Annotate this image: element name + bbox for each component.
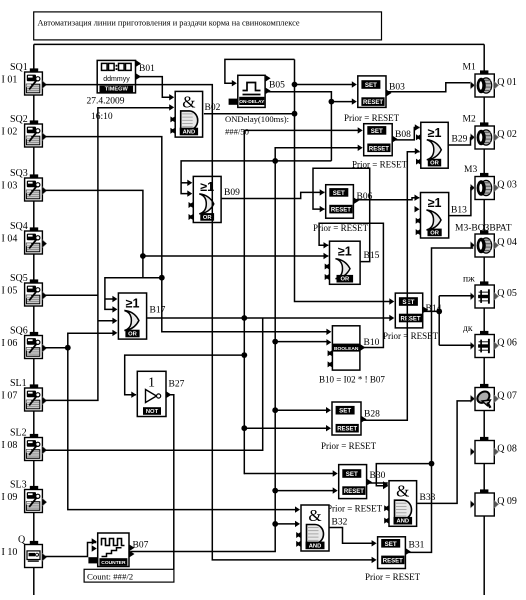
wire x244 trunk B08.SET — [244, 130, 358, 474]
wire SQ2 branch to B17.in1/in2 — [105, 278, 162, 310]
wire SL2 I08 up to B17-out wire — [44, 318, 263, 450]
AND gate B33 — [383, 481, 417, 527]
svg-text:I 08: I 08 — [2, 440, 18, 451]
junction x244 B28 — [241, 425, 247, 431]
wire B02.out to trunk — [204, 113, 295, 115]
junction B02 net B02out — [292, 111, 298, 117]
junction x244 y318 — [241, 315, 247, 321]
up/down counter B07 — [88, 533, 134, 567]
RS flip-flop B06 — [320, 185, 359, 219]
svg-text:RESET: RESET — [363, 100, 383, 106]
svg-text:BOOLEAN: BOOLEAN — [334, 346, 359, 352]
input SQ2 (I 02) — [25, 120, 47, 147]
wire branch y161 right — [275, 160, 331, 162]
wire SQ6 stub — [44, 347, 68, 349]
svg-text:SQ3: SQ3 — [10, 168, 28, 179]
wire branch to B17.in1 — [105, 298, 114, 300]
svg-text:B31: B31 — [409, 541, 425, 551]
junction x244 B27 — [241, 352, 247, 358]
svg-text:I 07: I 07 — [2, 391, 18, 402]
svg-text:I 06: I 06 — [2, 338, 18, 349]
wire to Q06 — [439, 344, 473, 346]
wire B03.out to Q01 — [387, 83, 471, 92]
wire B06.out to B13.in1 — [354, 198, 419, 200]
RS flip-flop B30 — [333, 465, 372, 499]
AND gate B32 — [295, 505, 329, 551]
junction B05 net — [329, 99, 335, 105]
svg-text:RESET: RESET — [331, 208, 351, 214]
svg-text:OR: OR — [340, 277, 350, 283]
wire B17.out to B14.RESET — [147, 317, 390, 319]
wire B13.out to Q03 — [449, 188, 473, 216]
RS flip-flop B03 — [352, 76, 392, 108]
wire B10.out to B15.in1 — [319, 223, 383, 347]
wire Q I10 to B07.in1 — [44, 543, 96, 557]
input Q (I 10) — [25, 541, 47, 568]
junction SQ2 branch — [159, 275, 165, 281]
input SL3 (I 09) — [25, 486, 47, 513]
svg-text:B09: B09 — [224, 188, 240, 198]
svg-text:I 09: I 09 — [2, 492, 18, 503]
input SQ4 (I 04) — [25, 227, 47, 254]
input SQ5 (I 05) — [25, 279, 47, 306]
svg-text:B07: B07 — [133, 541, 149, 551]
svg-text:&: & — [182, 92, 195, 111]
svg-text:RESET: RESET — [369, 146, 389, 152]
svg-text:I 05: I 05 — [2, 286, 18, 297]
svg-text:≥1: ≥1 — [126, 297, 140, 311]
RS flip-flop B08 — [358, 124, 398, 156]
svg-text:16:10: 16:10 — [91, 112, 113, 122]
svg-text:AND: AND — [183, 130, 196, 136]
junction B07 net B30 — [272, 488, 278, 494]
label Count: ###/2 (boxed) — [84, 569, 174, 582]
svg-text:TIMEGW: TIMEGW — [105, 87, 129, 93]
wire B09.out to B06.SET — [222, 192, 325, 198]
svg-text:М3-ВОЗВРАТ: М3-ВОЗВРАТ — [455, 224, 512, 234]
OR gate B17 — [112, 293, 146, 339]
svg-text:B17: B17 — [150, 306, 166, 316]
svg-text:Prior = RESET: Prior = RESET — [383, 331, 439, 341]
svg-text:M3: M3 — [464, 165, 477, 175]
wire B32.out to B31.SET — [330, 528, 373, 544]
timer clock B01 — [97, 60, 141, 93]
svg-text:Q 08: Q 08 — [497, 444, 517, 455]
wire branch to B33 via x376 — [376, 464, 431, 486]
junction B07 net y161 — [272, 158, 278, 164]
RS flip-flop B14 — [389, 293, 428, 328]
wire branch to B28.SET — [275, 409, 327, 411]
svg-text:I 03: I 03 — [2, 181, 18, 192]
svg-text:27.4.2009: 27.4.2009 — [87, 97, 125, 107]
svg-text:M1: M1 — [463, 63, 476, 73]
svg-text:OR: OR — [128, 332, 138, 338]
svg-text:Автоматизация линии приготов: Автоматизация линии приготовления и разд… — [38, 19, 300, 28]
svg-text:Q 07: Q 07 — [497, 391, 517, 402]
svg-text:SL1: SL1 — [10, 378, 27, 389]
svg-text:B13: B13 — [451, 206, 467, 216]
svg-text:SET: SET — [339, 408, 351, 415]
input SQ6 (I 06) — [25, 332, 47, 359]
svg-text:Q 05: Q 05 — [497, 288, 517, 299]
junction SQ3/y256 — [140, 253, 146, 259]
svg-text:Prior = RESET: Prior = RESET — [313, 223, 369, 233]
wire branch to B28.RESET — [244, 427, 326, 429]
OR gate B13 — [415, 193, 449, 239]
svg-text:SL2: SL2 — [10, 428, 27, 439]
svg-text:RESET: RESET — [383, 558, 403, 564]
wire B29.out to Q02 — [449, 137, 474, 145]
wire B15.out up — [313, 168, 370, 261]
output PZh (Q 05) — [470, 281, 499, 308]
svg-text:SET: SET — [371, 128, 383, 135]
svg-text:B05: B05 — [269, 81, 285, 91]
svg-text:I 10: I 10 — [2, 547, 18, 558]
svg-text:AND: AND — [309, 543, 322, 549]
output M2 (Q 02) — [470, 122, 499, 149]
wire y256 to B15.in2 — [143, 255, 328, 257]
wire branch to B03.SET — [295, 84, 353, 86]
output M3 (Q 03) — [470, 173, 499, 200]
svg-text:B15: B15 — [364, 251, 380, 261]
svg-text:&: & — [308, 506, 321, 525]
wire to B30.SET — [244, 473, 333, 475]
svg-text:SET: SET — [385, 541, 397, 548]
svg-text:NOT: NOT — [146, 409, 159, 415]
wire SQ1 I01 to B31.RESET — [44, 85, 372, 560]
title box — [34, 12, 382, 40]
on-delay timer B05 — [229, 75, 271, 107]
wire B28.out to B29.in3 — [362, 152, 420, 421]
svg-text:###/50: ###/50 — [225, 127, 249, 137]
output DK (Q 06) — [470, 331, 499, 358]
svg-text:B27: B27 — [169, 380, 185, 390]
svg-text:B01: B01 — [139, 64, 155, 74]
svg-text:Prior = RESET: Prior = RESET — [327, 504, 383, 514]
RS flip-flop B28 — [326, 402, 367, 435]
svg-text:пж: пж — [463, 275, 475, 285]
wire branch to B17.in3 — [98, 320, 114, 322]
output Q9 (Q 09) — [470, 489, 499, 516]
svg-text:SET: SET — [365, 82, 377, 89]
svg-text:Q: Q — [18, 535, 26, 546]
svg-text:&: & — [396, 482, 409, 501]
output Q8 (Q 08) — [470, 437, 499, 464]
svg-text:ddmmyy: ddmmyy — [103, 76, 130, 83]
svg-text:I 01: I 01 — [2, 75, 18, 86]
junction B02 net B03 — [292, 82, 298, 88]
wire SQ3 I03 down — [44, 190, 143, 277]
svg-text:ON-DELAY: ON-DELAY — [239, 99, 265, 105]
svg-text:OR: OR — [430, 230, 440, 236]
svg-text:RESET: RESET — [400, 317, 420, 323]
wire branch to B30.RESET — [275, 490, 333, 492]
wire branch y161 left to B09 — [181, 161, 275, 194]
input SQ1 (I 01) — [25, 68, 47, 95]
svg-text:B29: B29 — [452, 135, 468, 145]
output H (Q 07) — [470, 384, 499, 411]
svg-text:AND: AND — [397, 519, 410, 525]
svg-text:≥1: ≥1 — [338, 245, 352, 259]
svg-text:B33: B33 — [420, 493, 436, 503]
svg-text:SQ5: SQ5 — [10, 273, 28, 284]
output M3V (Q 04) — [470, 230, 499, 257]
svg-text:B08: B08 — [395, 130, 411, 140]
junction SQ6 — [65, 345, 71, 351]
wire branch to B03.RESET — [331, 101, 352, 103]
svg-text:SL3: SL3 — [10, 480, 27, 491]
junction B07 net B10 — [272, 339, 278, 345]
svg-text:Q 01: Q 01 — [497, 77, 517, 88]
wire B08.out to B29.in1 — [393, 128, 420, 140]
svg-text:SQ4: SQ4 — [10, 221, 28, 232]
svg-text:SET: SET — [346, 471, 358, 478]
wire SL1 I07 to B02.in2 — [44, 108, 170, 401]
wire branch to B10.in2 — [275, 341, 327, 343]
svg-text:Prior = RESET: Prior = RESET — [344, 113, 400, 123]
junction B31 net — [429, 461, 435, 467]
svg-text:SQ2: SQ2 — [10, 114, 28, 125]
wire SQ5 I05 join — [44, 294, 98, 296]
wire trunk x294.5 to B14.SET — [295, 59, 391, 301]
wire SQ2 I02 to B10.in1 — [44, 137, 327, 332]
wire B05.out to B03.RESET — [266, 92, 332, 161]
wire B33.out to Q07 — [417, 401, 471, 504]
svg-text:I 02: I 02 — [2, 127, 18, 138]
svg-text:B30: B30 — [370, 471, 386, 481]
wire x439 vertical — [438, 296, 440, 346]
input SQ3 (I 03) — [25, 174, 47, 201]
svg-text:1: 1 — [148, 376, 155, 391]
wire B14.out to Q05/Q06 — [423, 310, 439, 312]
wire branch to B09.in1 — [181, 182, 188, 184]
wire branch to B27.in — [125, 355, 245, 395]
svg-text:B28: B28 — [364, 410, 380, 420]
OR gate B15 — [324, 241, 361, 284]
OR gate B09 — [187, 176, 221, 222]
svg-text:SQ6: SQ6 — [10, 326, 28, 337]
OR gate B29 — [415, 122, 448, 168]
svg-text:Q 06: Q 06 — [497, 338, 517, 349]
input SL2 (I 08) — [25, 434, 47, 461]
input SL1 (I 07) — [25, 384, 47, 411]
svg-text:B10 = I02 * ! B07: B10 = I02 * ! B07 — [319, 375, 385, 385]
svg-text:Prior = RESET: Prior = RESET — [365, 572, 421, 582]
frame border / rails — [34, 44, 484, 595]
svg-text:M2: M2 — [463, 115, 476, 125]
svg-text:≥1: ≥1 — [428, 126, 442, 140]
svg-text:Q 09: Q 09 — [497, 496, 517, 507]
svg-text:Q 04: Q 04 — [497, 237, 517, 248]
wire SQ6 I06 to B17.in4 / B32.in1 — [68, 333, 296, 509]
wire B27.out down to count box — [167, 395, 174, 570]
svg-text:I 04: I 04 — [2, 234, 18, 245]
RS flip-flop B31 — [372, 537, 411, 569]
svg-text:дк: дк — [463, 324, 473, 334]
wire B07.out trunk to B08.RESET — [131, 148, 359, 552]
svg-text:SET: SET — [333, 190, 345, 197]
svg-text:Q 03: Q 03 — [497, 180, 517, 191]
wire B31.out up to Q04 — [406, 248, 473, 552]
AND gate B02 — [169, 91, 202, 137]
wire branch to B32.in2 — [275, 523, 296, 525]
svg-text:B32: B32 — [332, 518, 348, 528]
svg-text:Q 02: Q 02 — [497, 129, 517, 140]
output M1 (Q 01) — [470, 70, 499, 97]
boolean function block B10 — [326, 326, 365, 370]
svg-text:SQ1: SQ1 — [10, 62, 28, 73]
svg-text:SET: SET — [402, 299, 414, 306]
svg-text:OR: OR — [203, 215, 213, 221]
wire to Q05 — [439, 295, 473, 297]
NOT gate B27 — [131, 371, 171, 416]
wire B01.out to B02.in1 — [136, 77, 170, 98]
svg-text:ONDelay(100ms):: ONDelay(100ms): — [225, 114, 289, 124]
junction B14 net — [436, 309, 442, 315]
svg-text:Count: ###/2: Count: ###/2 — [87, 571, 133, 581]
svg-text:OR: OR — [430, 161, 440, 167]
wire B30.out to B33.in1 — [367, 482, 388, 484]
svg-text:B10: B10 — [364, 338, 380, 348]
svg-text:RESET: RESET — [337, 427, 357, 433]
svg-text:Prior = RESET: Prior = RESET — [321, 441, 377, 451]
svg-text:RESET: RESET — [344, 489, 364, 495]
svg-text:COUNTER: COUNTER — [101, 560, 126, 566]
wire B05 feedback loop — [225, 59, 295, 83]
junction B07 net B28 — [272, 407, 278, 413]
svg-text:≥1: ≥1 — [428, 196, 442, 210]
junction B07 net B32 — [272, 521, 278, 527]
